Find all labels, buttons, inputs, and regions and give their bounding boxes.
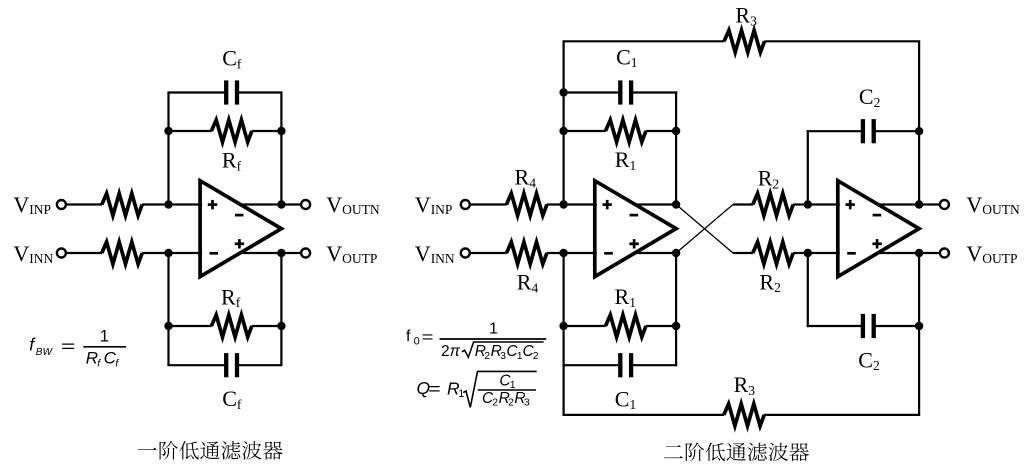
svg-text:R2: R2 — [758, 166, 779, 192]
svg-text:Cf: Cf — [222, 46, 242, 72]
resistor Rf (top, first-order) — [211, 120, 251, 142]
wire Cf bottom branch (first-order) — [167, 364, 282, 366]
svg-text:1: 1 — [489, 320, 498, 337]
wire R1 bottom branch — [564, 325, 677, 327]
wire VOUTP output (second-order) — [879, 252, 940, 254]
svg-text:2: 2 — [441, 343, 450, 360]
wire upper R2 line — [733, 203, 840, 205]
svg-text:0: 0 — [414, 335, 420, 347]
wire U2 output N stub — [636, 203, 676, 205]
caption 二阶低通滤波器 (second-order low-pass filter) — [664, 443, 809, 462]
wire crossover diagonal (outN to lower R2) — [676, 205, 733, 254]
wire left rail bottom (second-order) — [562, 253, 564, 415]
svg-text:VINN: VINN — [415, 241, 455, 266]
resistor R1 (bottom) — [606, 315, 646, 337]
wire C2 top branch — [807, 130, 919, 132]
wire VOUTN output (second-order) — [879, 203, 940, 205]
terminal VOUTP (second-order) — [940, 249, 949, 258]
wire R1 top branch — [564, 130, 677, 132]
wire right rail top (first-order) — [280, 93, 282, 205]
wire C1 top branch — [564, 91, 678, 93]
op-amp U1 (first-order, fully differential) — [200, 181, 281, 277]
wire crossover diagonal (outP to upper R2) — [676, 205, 733, 254]
wire VOUTP output (first-order) — [241, 252, 301, 254]
wire C1 top right vertical — [675, 91, 677, 204]
svg-text:R: R — [86, 349, 98, 368]
wire R3 bottom feedback line — [563, 414, 921, 416]
wire VINP input (second-order) — [470, 203, 597, 205]
svg-text:R3: R3 — [734, 372, 756, 398]
svg-text:Cf: Cf — [222, 386, 242, 412]
svg-text:VOUTN: VOUTN — [326, 192, 380, 217]
wire VINP input (first-order) — [66, 203, 202, 205]
svg-text:R4: R4 — [517, 270, 539, 296]
resistor R4 (top input) — [507, 194, 547, 216]
wire lower R2 line — [733, 252, 840, 254]
svg-text:2: 2 — [484, 350, 490, 362]
svg-text:R1: R1 — [615, 147, 636, 173]
terminal VOUTP — [301, 249, 310, 258]
resistor input P (first-order, unlabeled) — [102, 194, 142, 216]
capacitor Cf (bottom, first-order) — [226, 353, 237, 377]
svg-text:C2: C2 — [859, 84, 880, 110]
svg-text:2: 2 — [533, 350, 539, 362]
resistor R1 (top) — [606, 120, 646, 142]
resistor R4 (bottom input) — [507, 242, 547, 264]
svg-text:=: = — [61, 337, 76, 356]
wire VINN input (first-order) — [66, 252, 202, 254]
formula Q = R1*sqrt(C1/(C2R2R3)) — [417, 371, 537, 408]
terminal VOUTN (second-order) — [940, 200, 949, 209]
junction dots (second-order) — [559, 88, 923, 330]
svg-text:R1: R1 — [615, 284, 636, 310]
wire C1 bottom right vertical — [675, 253, 677, 366]
capacitor C2 (bottom) — [863, 314, 874, 338]
svg-text:1: 1 — [100, 326, 109, 345]
wire Rf top branch (first-order) — [169, 130, 282, 132]
resistor Rf (bottom, first-order) — [211, 315, 251, 337]
svg-text:C1: C1 — [615, 386, 636, 412]
terminal VINP (second-order) — [461, 200, 470, 209]
svg-text:R4: R4 — [515, 165, 537, 191]
svg-text:C1: C1 — [616, 44, 637, 70]
capacitor C2 (top) — [863, 119, 874, 143]
resistor input N (first-order, unlabeled) — [102, 242, 142, 264]
svg-text:Rf: Rf — [222, 148, 242, 174]
svg-text:f: f — [97, 357, 101, 369]
wire Rf bottom branch (first-order) — [169, 325, 282, 327]
junction dots (first-order) — [164, 127, 285, 330]
svg-text:C2: C2 — [858, 347, 879, 373]
wire C2 bottom branch — [807, 325, 919, 327]
wire U2 output P stub — [636, 252, 676, 254]
wire Cf top branch (first-order) — [167, 91, 282, 93]
resistor R3 (bottom) — [724, 404, 764, 426]
svg-text:R3: R3 — [735, 3, 757, 29]
svg-text:R2: R2 — [759, 269, 780, 295]
svg-text:2: 2 — [492, 396, 498, 408]
capacitor C1 (top) — [620, 80, 631, 104]
svg-text:VOUTP: VOUTP — [326, 241, 377, 266]
svg-text:2: 2 — [508, 396, 514, 408]
wire right rail bottom (second-order) — [918, 253, 920, 415]
resistor R2 (top) — [753, 194, 793, 216]
wire VINN input (second-order) — [470, 252, 597, 254]
svg-text:Rf: Rf — [221, 284, 241, 310]
wire VOUTN output (first-order) — [241, 203, 301, 205]
resistor R3 (top) — [724, 30, 764, 52]
svg-text:VOUTN: VOUTN — [966, 192, 1020, 217]
terminal VINN — [57, 249, 66, 258]
terminal VINP — [57, 200, 66, 209]
wire R3 top feedback line — [563, 40, 921, 42]
svg-text:3: 3 — [500, 350, 506, 362]
svg-text:1: 1 — [458, 388, 464, 400]
capacitor Cf (top, first-order) — [226, 80, 237, 104]
svg-text:VINP: VINP — [415, 192, 453, 217]
wire right rail bottom (first-order) — [280, 253, 282, 365]
formula f0 = 1/(2*pi*sqrt(R2R3C1C2)) — [406, 320, 546, 362]
svg-text:VOUTP: VOUTP — [966, 241, 1017, 266]
resistor R2 (bottom) — [753, 242, 793, 264]
wire left rail top (second-order) — [562, 41, 564, 204]
svg-text:=: = — [422, 329, 434, 346]
wire left rail top (first-order) — [167, 93, 169, 205]
svg-text:=: = — [428, 380, 441, 399]
wire right rail top (second-order) — [918, 41, 920, 204]
wire C2 top left vertical — [807, 130, 809, 204]
op-amp U2 (second-order, first stage) — [595, 181, 676, 277]
terminal VINN (second-order) — [461, 249, 470, 258]
caption 一阶低通滤波器 (first-order low-pass filter) — [138, 441, 283, 460]
svg-text:3: 3 — [524, 396, 530, 408]
svg-text:VINP: VINP — [13, 192, 51, 217]
svg-text:BW: BW — [36, 347, 54, 358]
svg-text:f: f — [115, 357, 119, 369]
terminal VOUTN — [301, 200, 310, 209]
svg-text:VINN: VINN — [13, 241, 53, 266]
wire C2 bottom left vertical — [807, 253, 809, 327]
wire C1 bottom branch — [564, 364, 678, 366]
svg-text:π: π — [450, 343, 461, 360]
wire left rail bottom (first-order) — [167, 253, 169, 365]
formula fBW = 1/(Rf Cf) — [29, 326, 126, 369]
op-amp U3 (second-order, second stage) — [838, 181, 919, 277]
svg-text:f: f — [406, 328, 411, 345]
capacitor C1 (bottom) — [620, 353, 631, 377]
